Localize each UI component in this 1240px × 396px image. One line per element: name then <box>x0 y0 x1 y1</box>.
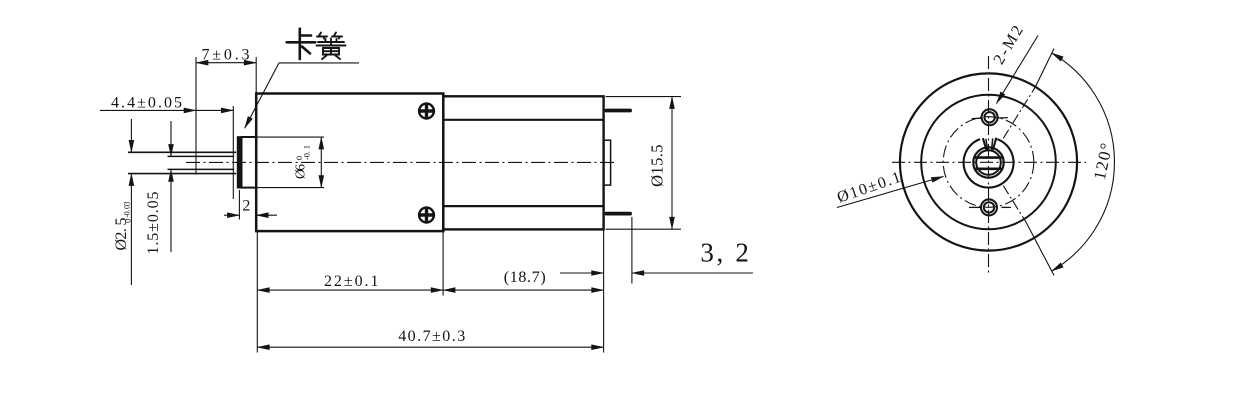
extension line 4.4 right / circlip <box>232 106 234 199</box>
M2 hole bottom thread circle <box>981 199 997 215</box>
front view horizontal centerline <box>892 161 1086 163</box>
shaft outer ring <box>973 147 1003 177</box>
shaft inner top line (1.5 flat) <box>168 155 235 157</box>
svg-text:3, 2: 3, 2 <box>700 238 749 268</box>
notch tick 1 <box>986 139 988 150</box>
extension line gearbox face up <box>255 57 257 93</box>
dim 22±0.1 line <box>257 289 443 291</box>
glyph 卡 <box>287 29 316 59</box>
M2 hole top tick right <box>998 117 1008 119</box>
M2 hole bottom tick right <box>1001 206 1011 208</box>
bottom extension line terminal tip <box>631 217 633 284</box>
M2 hole top <box>984 112 994 122</box>
dim Ø6 line <box>320 137 322 188</box>
shaft inner bottom line (1.5 flat) <box>168 168 235 170</box>
dim 3.2 right arrow <box>632 272 753 274</box>
bolt circle Ø10 (dash-dot) <box>943 117 1034 208</box>
bottom extension line motor back <box>603 229 605 352</box>
svg-text:(18.7): (18.7) <box>504 269 546 286</box>
leader Ø10±0.1 <box>837 177 944 208</box>
leader 卡簧 shoulder <box>279 62 359 64</box>
shaft outer top line (Ø2.5) <box>128 151 236 153</box>
svg-text:7±0.3: 7±0.3 <box>202 47 250 64</box>
svg-text:22±0.1: 22±0.1 <box>324 273 379 290</box>
extension line shared (shaft flat start) <box>195 57 197 175</box>
screw bottom (gearbox) <box>418 206 436 224</box>
M2 hole bottom <box>984 202 994 212</box>
svg-text:1.5±0.05: 1.5±0.05 <box>145 192 162 255</box>
outer circle (housing) <box>900 73 1077 250</box>
shaft outer bottom line (Ø2.5) <box>128 173 236 175</box>
120° dimension arc <box>1052 53 1115 271</box>
terminal top <box>605 109 632 113</box>
svg-text:Ø15.5: Ø15.5 <box>648 145 667 187</box>
dim Ø15.5 extension bottom <box>606 228 681 230</box>
glyph 簧 <box>317 33 346 60</box>
extension line circlip bottom <box>238 190 240 220</box>
svg-text:2-M2: 2-M2 <box>991 23 1027 68</box>
boss circle with top notch <box>964 139 1014 187</box>
dim (18.7) line <box>443 289 603 291</box>
notch tick 2 <box>992 138 993 149</box>
svg-text:-0. 1: -0. 1 <box>302 145 312 160</box>
60° axis solid extension <box>1035 49 1054 88</box>
shaft flat chord bottom <box>975 168 1002 171</box>
dim 3.2 left arrow <box>560 272 604 274</box>
dim 4.4±0.05 line <box>100 109 196 111</box>
motor can step line upper <box>443 119 603 121</box>
M2 hole top thread circle <box>982 109 998 125</box>
svg-text:-0. 03: -0. 03 <box>123 202 132 218</box>
svg-text:40.7±0.3: 40.7±0.3 <box>398 328 465 345</box>
302° axis dash-dot lower-right <box>1003 186 1026 222</box>
dim 2 arrows <box>224 214 239 216</box>
terminal bottom <box>605 212 632 216</box>
svg-text:2: 2 <box>242 198 250 215</box>
svg-text:Ø10±0.1: Ø10±0.1 <box>835 169 903 207</box>
leader 卡簧 diagonal with arrow <box>245 63 279 128</box>
dim Ø15.5 extension top <box>606 96 681 98</box>
svg-text:Ø6: Ø6 <box>293 164 308 179</box>
dim Ø2.5 0/-0.03 lines <box>130 119 132 285</box>
screw top (gearbox) <box>418 102 436 120</box>
M2 hole bottom tick left <box>969 206 981 208</box>
M2 hole top tick left <box>972 117 982 119</box>
shaft flat chord top <box>975 156 1002 159</box>
dim Ø15.5 line <box>671 97 673 230</box>
shaft inner ring <box>976 150 1001 175</box>
notch right line <box>993 138 997 150</box>
dim Ø6 0/-0.1 extension lines <box>242 136 324 138</box>
bottom extension line gearbox/motor joint <box>442 231 444 296</box>
svg-text:0: 0 <box>124 219 133 223</box>
label 卡簧 (circlip) hand-drawn glyphs <box>287 29 346 59</box>
brush end cap <box>604 140 611 185</box>
centerline (shaft axis) <box>186 161 616 163</box>
circlip (卡簧) collar <box>237 136 241 188</box>
flange circle <box>921 95 1056 230</box>
58° axis dash-dot upper-right <box>1003 87 1035 138</box>
gearbox body <box>256 94 443 232</box>
300° axis solid extension <box>1026 222 1054 275</box>
dim 1.5±0.05 lines <box>170 121 172 252</box>
boss (Ø6 pilot) <box>242 137 257 188</box>
motor can step line lower <box>443 205 603 207</box>
bottom extension line at gearbox face <box>256 231 258 353</box>
motor body <box>443 96 603 229</box>
svg-text:120°: 120° <box>1090 141 1116 181</box>
dim 40.7±0.3 line <box>257 346 603 348</box>
notch left line <box>983 138 987 150</box>
dim 7±0.3 line <box>196 62 256 64</box>
front view vertical centerline <box>988 56 990 274</box>
leader 2-M2 <box>997 36 1039 104</box>
svg-text:4.4±0.05: 4.4±0.05 <box>111 94 182 111</box>
